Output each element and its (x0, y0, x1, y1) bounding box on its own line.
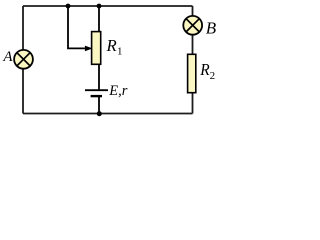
label A (2, 49, 13, 65)
label B (206, 19, 217, 38)
arrow head to R1 (85, 46, 93, 52)
svg-text:B: B (206, 19, 217, 38)
node junction bottom (97, 111, 102, 116)
label E,r (108, 83, 127, 99)
wire top (23, 5, 193, 7)
wire bottom (23, 113, 193, 115)
battery E,r short plate (91, 95, 102, 97)
svg-text:E,r: E,r (108, 83, 127, 99)
svg-text:R: R (106, 36, 118, 55)
wire right (192, 6, 194, 114)
resistor R2 (188, 54, 196, 92)
label R2 (199, 60, 215, 82)
resistor R1 (92, 32, 101, 65)
wire middle branch (98, 6, 100, 114)
lamp B (183, 16, 202, 35)
wire left (22, 6, 24, 114)
svg-text:1: 1 (117, 46, 123, 58)
svg-text:2: 2 (210, 70, 216, 82)
battery E,r long plate (85, 89, 108, 91)
wire slider arm (68, 6, 87, 48)
label R1 (106, 36, 123, 58)
lamp A (14, 50, 33, 69)
svg-text:R: R (199, 60, 210, 79)
svg-text:A: A (2, 49, 13, 65)
node junction top-right (97, 4, 102, 9)
node junction top-left (66, 4, 71, 9)
